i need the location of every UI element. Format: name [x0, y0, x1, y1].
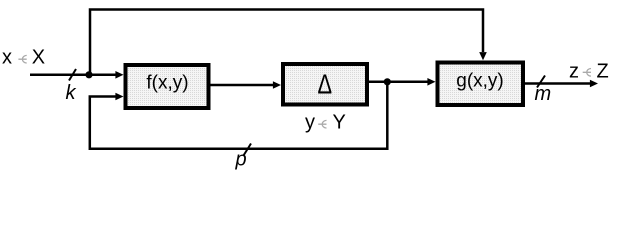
svg-text:Δ: Δ	[318, 69, 333, 100]
svg-text:X: X	[32, 47, 45, 69]
svg-text:g(x,y): g(x,y)	[456, 71, 504, 92]
svg-text:m: m	[535, 83, 552, 105]
slash p on bottom wire	[244, 144, 252, 156]
wire delta to g	[369, 81, 428, 84]
svg-text:f(x,y): f(x,y)	[146, 73, 188, 94]
block g(x,y)	[438, 63, 524, 106]
block delta	[283, 64, 367, 105]
slash m on output wire	[537, 76, 545, 88]
arrowhead into f upper input	[115, 71, 123, 79]
wire input x	[30, 74, 116, 77]
block f(x,y)	[126, 65, 209, 108]
svg-text:x: x	[2, 47, 12, 69]
wire output z	[525, 82, 590, 85]
arrowhead into delta	[273, 81, 281, 89]
svg-text:Z: Z	[597, 61, 609, 83]
arrowhead output	[590, 80, 598, 88]
svg-text:Y: Y	[333, 112, 346, 134]
wire top feedback: from input junction up, across, down to g(x,y)	[90, 10, 483, 75]
svg-text:k: k	[66, 82, 77, 104]
arrowhead into f lower input	[115, 93, 123, 101]
node input junction	[85, 71, 92, 78]
svg-text:z: z	[569, 61, 579, 83]
wire bottom feedback: down from junction, left, up into f lower input	[90, 82, 388, 149]
node junction after delta	[384, 78, 391, 85]
slash k on input wire	[69, 69, 76, 81]
arrowhead into g	[427, 78, 435, 86]
wire f to delta	[211, 84, 274, 87]
arrowhead into top of g	[479, 52, 487, 60]
svg-text:y: y	[305, 112, 315, 134]
svg-text:p: p	[235, 149, 247, 171]
